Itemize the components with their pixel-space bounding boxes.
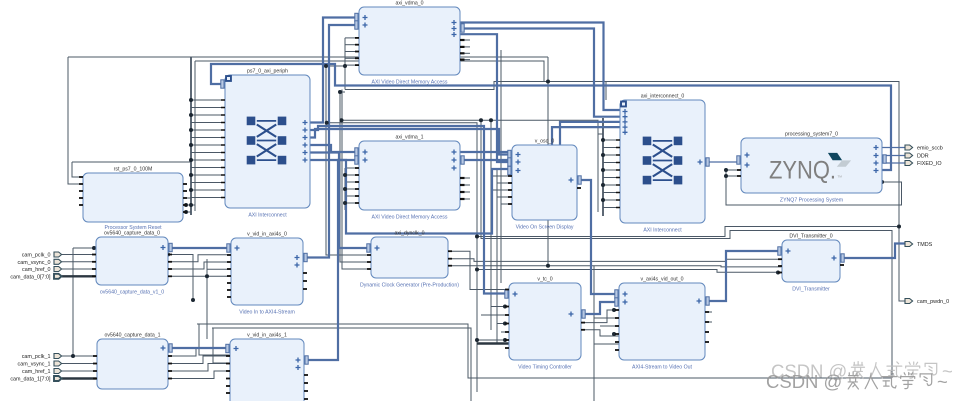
svg-text:v_osd_0: v_osd_0 — [535, 139, 555, 145]
svg-text:v_vid_in_axi4s_0: v_vid_in_axi4s_0 — [247, 232, 287, 238]
svg-text:v_axi4s_vid_out_0: v_axi4s_vid_out_0 — [641, 277, 684, 283]
svg-text:rst_ps7_0_100M: rst_ps7_0_100M — [114, 167, 153, 173]
svg-text:DVI_Transmitter_0: DVI_Transmitter_0 — [789, 234, 832, 240]
svg-text:ov5640_capture_data_v1_0: ov5640_capture_data_v1_0 — [100, 290, 164, 296]
svg-text:ov5640_capture_data_1: ov5640_capture_data_1 — [105, 333, 161, 339]
svg-text:DDR: DDR — [917, 154, 929, 160]
svg-text:cam_vsync_1: cam_vsync_1 — [18, 362, 51, 368]
svg-text:v_tc_0: v_tc_0 — [537, 277, 552, 283]
svg-text:FIXED_IO: FIXED_IO — [917, 161, 942, 167]
svg-text:cam_pclk_0: cam_pclk_0 — [22, 253, 51, 259]
svg-text:AXI Interconnect: AXI Interconnect — [248, 213, 287, 219]
svg-text:Video In to AXI4-Stream: Video In to AXI4-Stream — [239, 310, 295, 316]
svg-text:v_vid_in_axi4s_1: v_vid_in_axi4s_1 — [247, 333, 287, 339]
svg-text:~: ~ — [937, 371, 948, 392]
svg-text:cam_data_1[7:0]: cam_data_1[7:0] — [10, 377, 51, 383]
svg-text:axi_vdma_1: axi_vdma_1 — [396, 135, 424, 141]
svg-text:ZYNQ7 Processing System: ZYNQ7 Processing System — [780, 198, 843, 204]
svg-text:axi_dynclk_0: axi_dynclk_0 — [395, 231, 425, 237]
svg-text:Video Timing Controller: Video Timing Controller — [518, 365, 572, 371]
svg-text:cam_pwdn_0: cam_pwdn_0 — [917, 299, 949, 305]
svg-text:axi_interconnect_0: axi_interconnect_0 — [641, 94, 685, 100]
svg-text:cam_data_0[7:0]: cam_data_0[7:0] — [10, 275, 51, 281]
svg-text:Video On Screen Display: Video On Screen Display — [516, 225, 574, 231]
svg-text:ps7_0_axi_periph: ps7_0_axi_periph — [247, 69, 288, 75]
svg-text:ZYNQ.: ZYNQ. — [769, 157, 836, 185]
svg-text:CSDN @: CSDN @ — [766, 371, 842, 392]
svg-text:cam_vsync_0: cam_vsync_0 — [18, 260, 51, 266]
svg-text:AXI Video Direct Memory Access: AXI Video Direct Memory Access — [371, 215, 447, 221]
svg-text:AXI Video Direct Memory Access: AXI Video Direct Memory Access — [371, 80, 447, 86]
svg-text:cam_pclk_1: cam_pclk_1 — [22, 354, 51, 360]
svg-text:AXI Interconnect: AXI Interconnect — [643, 228, 682, 234]
svg-text:DVI_Transmitter: DVI_Transmitter — [792, 287, 830, 293]
svg-text:ov5640_capture_data_0: ov5640_capture_data_0 — [104, 231, 160, 237]
svg-text:processing_system7_0: processing_system7_0 — [785, 132, 838, 138]
svg-text:TMDS: TMDS — [917, 242, 933, 248]
svg-text:cam_href_0: cam_href_0 — [22, 267, 50, 273]
svg-text:axi_vdma_0: axi_vdma_0 — [396, 1, 424, 7]
svg-text:AXI4-Stream to Video Out: AXI4-Stream to Video Out — [632, 365, 692, 371]
svg-text:emio_sccb: emio_sccb — [917, 146, 943, 152]
svg-text:cam_href_1: cam_href_1 — [22, 369, 50, 375]
svg-text:TM: TM — [838, 175, 843, 179]
svg-text:Dynamic Clock Generator (Pre-P: Dynamic Clock Generator (Pre-Production) — [360, 283, 459, 289]
